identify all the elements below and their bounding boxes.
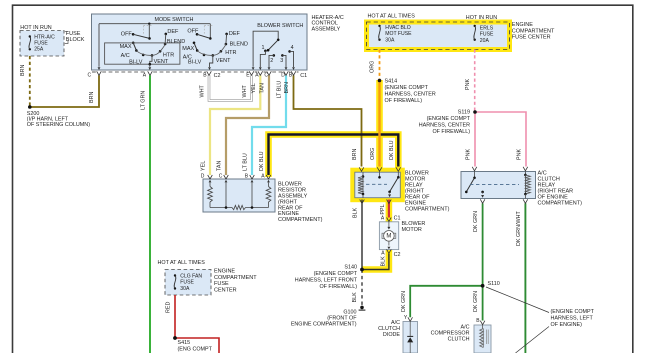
svg-text:VENT: VENT: [154, 59, 169, 65]
svg-text:COMPARTMENT): COMPARTMENT): [405, 206, 450, 212]
svg-text:OF STEERING COLUMN): OF STEERING COLUMN): [27, 122, 90, 128]
svg-text:ORG: ORG: [370, 148, 376, 160]
svg-text:C2: C2: [214, 73, 221, 79]
svg-text:20A: 20A: [480, 38, 490, 44]
svg-text:(ENGINE COMPT: (ENGINE COMPT: [427, 116, 471, 122]
svg-text:OFF: OFF: [187, 29, 199, 35]
svg-text:VENT: VENT: [216, 58, 231, 64]
svg-text:30A: 30A: [180, 286, 190, 292]
svg-text:DK GRN/WHT: DK GRN/WHT: [516, 211, 522, 246]
svg-text:ENGINE: ENGINE: [512, 22, 533, 28]
svg-text:LT BLU: LT BLU: [277, 81, 283, 99]
svg-text:HOT AT ALL TIMES: HOT AT ALL TIMES: [368, 13, 416, 19]
svg-text:BI-LV: BI-LV: [129, 60, 143, 66]
svg-text:BRN: BRN: [284, 82, 290, 93]
svg-text:COMPARTMENT: COMPARTMENT: [214, 275, 257, 281]
svg-text:LT GRN: LT GRN: [140, 91, 146, 110]
svg-text:ERLS: ERLS: [480, 25, 494, 31]
svg-text:3: 3: [280, 58, 283, 64]
svg-text:BI-LV: BI-LV: [188, 60, 202, 66]
svg-text:FUSE CENTER: FUSE CENTER: [512, 35, 551, 41]
svg-text:M: M: [386, 233, 391, 239]
svg-text:PNK: PNK: [465, 79, 471, 90]
svg-text:(ENGINE COMPT: (ENGINE COMPT: [385, 85, 429, 91]
svg-text:BLOWER SWITCH: BLOWER SWITCH: [257, 23, 303, 29]
svg-text:ENGINE: ENGINE: [214, 269, 235, 275]
svg-text:CENTER: CENTER: [214, 288, 237, 294]
svg-text:S119: S119: [458, 110, 470, 116]
svg-text:YEL: YEL: [251, 83, 257, 93]
svg-text:OFF: OFF: [121, 32, 133, 38]
svg-text:(ENGINE COMPT: (ENGINE COMPT: [314, 271, 358, 277]
svg-text:FUSE: FUSE: [480, 32, 494, 38]
svg-text:C2: C2: [394, 252, 401, 258]
svg-text:HVAC BLO: HVAC BLO: [385, 25, 410, 31]
svg-text:HTR: HTR: [163, 52, 174, 58]
svg-text:WHT: WHT: [200, 85, 206, 98]
svg-text:YEL: YEL: [201, 161, 207, 171]
svg-text:4: 4: [291, 45, 294, 51]
svg-text:A/C: A/C: [461, 325, 470, 331]
svg-text:HOT IN RUN: HOT IN RUN: [20, 25, 51, 31]
svg-text:PPL: PPL: [380, 204, 386, 214]
svg-text:DEF: DEF: [167, 29, 179, 35]
svg-text:COMPARTMENT): COMPARTMENT): [538, 201, 583, 207]
svg-text:OF FIREWALL): OF FIREWALL): [432, 129, 470, 135]
svg-text:HARNESS, LEFT FRONT: HARNESS, LEFT FRONT: [295, 278, 358, 284]
svg-text:DIODE: DIODE: [383, 332, 400, 338]
svg-text:ASSEMBLY: ASSEMBLY: [312, 26, 341, 32]
svg-text:HOT IN RUN: HOT IN RUN: [466, 15, 497, 21]
svg-text:MOTOR: MOTOR: [402, 227, 422, 233]
svg-text:S140: S140: [344, 265, 357, 271]
svg-text:S414: S414: [385, 78, 398, 84]
svg-text:MAX: MAX: [120, 44, 132, 50]
svg-text:LT BLU: LT BLU: [243, 153, 249, 171]
svg-text:PNK: PNK: [516, 149, 522, 160]
svg-text:S110: S110: [488, 281, 500, 287]
svg-text:MOT FUSE: MOT FUSE: [385, 31, 412, 37]
svg-text:BLEND: BLEND: [230, 42, 248, 48]
svg-text:HARNESS, CENTER: HARNESS, CENTER: [419, 123, 470, 129]
svg-text:(ENGINE COMPT: (ENGINE COMPT: [551, 309, 595, 315]
svg-text:25A: 25A: [34, 47, 44, 53]
svg-text:HTR: HTR: [225, 50, 236, 56]
svg-text:C1: C1: [300, 73, 307, 79]
svg-text:RED: RED: [166, 302, 172, 313]
svg-text:COMPARTMENT: COMPARTMENT: [512, 28, 555, 34]
svg-text:PNK: PNK: [465, 149, 471, 160]
svg-text:DK BLU: DK BLU: [259, 151, 265, 171]
svg-text:COMPARTMENT): COMPARTMENT): [278, 217, 323, 223]
svg-text:DK BLU: DK BLU: [389, 140, 395, 160]
svg-text:30A: 30A: [385, 37, 395, 43]
svg-text:DEF: DEF: [229, 31, 241, 37]
svg-text:CLUTCH: CLUTCH: [448, 337, 470, 343]
svg-text:2: 2: [270, 58, 273, 64]
svg-text:DK GRN: DK GRN: [401, 291, 407, 312]
svg-text:BRN: BRN: [89, 92, 95, 103]
svg-text:(ENG COMPT: (ENG COMPT: [178, 347, 213, 353]
svg-text:1: 1: [262, 45, 265, 51]
svg-text:HARNESS, LEFT: HARNESS, LEFT: [551, 316, 594, 322]
svg-text:BLEND: BLEND: [167, 39, 185, 45]
svg-text:HOT AT ALL TIMES: HOT AT ALL TIMES: [158, 260, 206, 266]
svg-text:A/C: A/C: [121, 53, 130, 59]
svg-text:BLK: BLK: [352, 292, 358, 303]
svg-text:BLK: BLK: [353, 207, 359, 218]
svg-text:BLK: BLK: [380, 256, 386, 267]
svg-text:BRN: BRN: [20, 65, 26, 76]
svg-text:BLOCK: BLOCK: [66, 37, 85, 43]
svg-text:CLG FAN: CLG FAN: [180, 273, 202, 279]
svg-text:MODE SWITCH: MODE SWITCH: [155, 17, 194, 23]
svg-text:ORG: ORG: [369, 61, 375, 73]
svg-text:C1: C1: [394, 215, 401, 221]
svg-text:FUSE: FUSE: [180, 280, 194, 286]
svg-text:MAX: MAX: [182, 46, 194, 52]
svg-text:C: C: [219, 174, 223, 180]
svg-text:BRN: BRN: [352, 149, 358, 160]
svg-text:HARNESS, CENTER: HARNESS, CENTER: [385, 92, 436, 98]
svg-text:TAN: TAN: [260, 83, 266, 93]
svg-text:TAN: TAN: [217, 161, 223, 171]
svg-text:DK GRN: DK GRN: [473, 211, 479, 232]
svg-text:FUSE: FUSE: [214, 281, 229, 287]
svg-text:DK GRN: DK GRN: [473, 291, 479, 312]
svg-text:WHT: WHT: [242, 85, 248, 98]
svg-text:D: D: [201, 174, 205, 180]
svg-text:C: C: [88, 73, 92, 79]
svg-text:D: D: [281, 73, 285, 79]
svg-text:ENGINE COMPARTMENT): ENGINE COMPARTMENT): [291, 322, 357, 328]
svg-text:C: C: [264, 73, 268, 79]
svg-text:S415: S415: [178, 340, 191, 346]
svg-text:OF FIREWALL): OF FIREWALL): [319, 284, 357, 290]
svg-text:OF FIREWALL): OF FIREWALL): [385, 98, 423, 104]
svg-text:OF ENGINE): OF ENGINE): [551, 322, 583, 328]
